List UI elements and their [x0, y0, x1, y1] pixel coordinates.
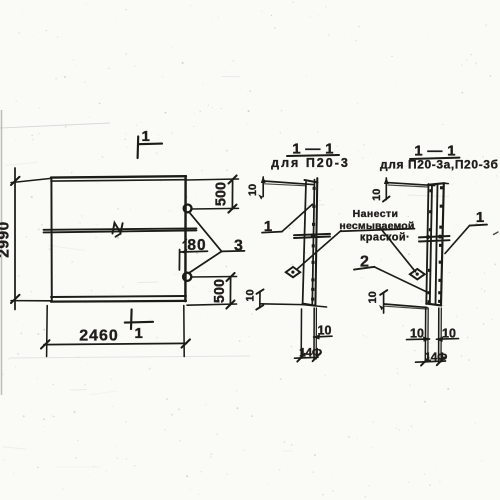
svg-text:10: 10	[245, 289, 257, 301]
svg-text:2460: 2460	[79, 328, 119, 345]
svg-text:2990: 2990	[0, 221, 13, 257]
svg-text:1: 1	[264, 218, 272, 235]
svg-text:10: 10	[367, 291, 379, 303]
svg-text:для П20-3а,П20-3б: для П20-3а,П20-3б	[380, 158, 498, 172]
svg-text:80: 80	[187, 237, 206, 254]
svg-text:3: 3	[234, 238, 243, 255]
svg-text:10: 10	[371, 189, 383, 201]
svg-text:14Ф: 14Ф	[424, 350, 447, 364]
svg-text:10: 10	[247, 184, 259, 196]
svg-text:1: 1	[142, 128, 150, 145]
svg-text:14Ф: 14Ф	[299, 345, 322, 359]
svg-text:для П20-3: для П20-3	[271, 156, 350, 170]
svg-text:10: 10	[318, 323, 332, 337]
svg-text:1: 1	[135, 325, 143, 342]
svg-text:1: 1	[476, 209, 484, 226]
svg-text:Нанести: Нанести	[353, 208, 399, 220]
svg-text:500: 500	[212, 279, 228, 303]
svg-text:500: 500	[214, 182, 230, 206]
svg-text:10: 10	[442, 327, 456, 341]
svg-text:1 — 1: 1 — 1	[292, 141, 334, 158]
svg-text:10: 10	[410, 327, 424, 341]
